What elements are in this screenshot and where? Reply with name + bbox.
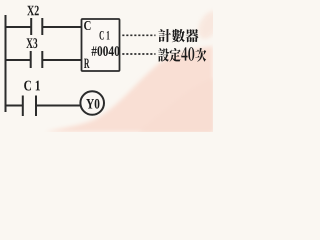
faint pink wisp top right bbox=[194, 8, 224, 43]
contact X3 bbox=[31, 51, 43, 68]
label C1 (contact) bbox=[24, 81, 31, 91]
counter U1 block outline bbox=[82, 19, 120, 71]
label X3 bbox=[26, 38, 32, 48]
wire rung 1 left segment bbox=[5, 26, 32, 28]
contact X2 bbox=[31, 18, 42, 35]
annotation 計數器 (counter) bbox=[158, 29, 198, 42]
wire rung 3 to coil Y0 bbox=[36, 105, 81, 107]
wire left power rail bbox=[5, 15, 7, 112]
pin label R bbox=[84, 59, 90, 68]
coil label Y0 bbox=[86, 99, 99, 109]
label X2 bbox=[27, 6, 34, 15]
coil Y0 circle bbox=[80, 91, 104, 115]
pink corner decoration bbox=[45, 46, 213, 132]
counter name C1 bbox=[99, 31, 103, 40]
wire rung 1 right segment to counter C input bbox=[42, 26, 82, 28]
pink corner deep tint bbox=[138, 78, 213, 132]
wire rung 2 left segment bbox=[5, 59, 31, 61]
annotation 設定40次 (set 40 times) bbox=[158, 47, 206, 61]
leader dotted line 2 bbox=[122, 53, 155, 55]
leader dotted line 1 bbox=[122, 34, 155, 36]
pin label C bbox=[84, 21, 91, 30]
wire rung 3 left segment bbox=[5, 105, 23, 107]
wire rung 2 right segment to counter R input bbox=[42, 59, 82, 61]
counter preset value #0040 bbox=[91, 46, 96, 55]
contact C1 bbox=[23, 96, 36, 117]
